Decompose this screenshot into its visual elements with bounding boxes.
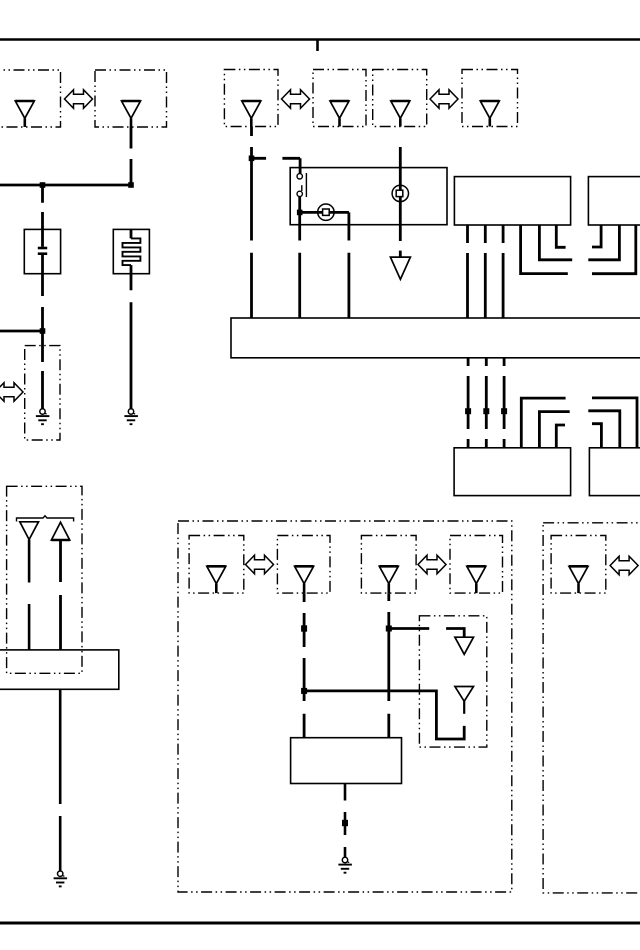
junction node: [386, 626, 392, 632]
outgoing triangle below L2: [390, 257, 410, 279]
junction node: [249, 156, 255, 162]
wire from M1 down to bus: [250, 127, 253, 319]
connector triangle in Bc: [379, 566, 398, 583]
wire to bus: [347, 225, 350, 318]
signal in triangle: [51, 522, 69, 540]
junction node: [301, 688, 307, 694]
hook wire E3 pin4: [521, 398, 565, 448]
hook wire E1 pin4: [521, 225, 568, 274]
out triangle T1: [455, 637, 474, 654]
junction bus box: [231, 318, 640, 358]
connector triangle in M1: [242, 101, 261, 118]
connector triangle in M2: [330, 101, 349, 118]
dashed wire from Bb: [303, 593, 306, 738]
lamp L2: [392, 185, 408, 201]
connector triangle in Be: [569, 566, 588, 583]
control unit box E3: [454, 448, 570, 496]
connector triangle in M3: [391, 101, 410, 118]
stem M4: [488, 118, 491, 126]
branch wire to switch: [252, 158, 301, 173]
ground G2: [124, 409, 137, 424]
antenna unit dash-dot box: [7, 486, 82, 673]
hook wire E4 pin3: [592, 424, 601, 447]
resistor R1 element: [123, 229, 141, 273]
bracket over triangles: [17, 516, 74, 522]
dash-dot box around G1: [25, 346, 60, 440]
switch S1: [297, 173, 306, 197]
stem L2: [130, 118, 133, 127]
hook wire E4 pin1: [592, 398, 637, 447]
connector box L2: [95, 70, 167, 127]
signal out wire: [28, 540, 31, 650]
capacitor C1 box: [24, 229, 60, 273]
connector box Ba: [189, 536, 244, 594]
wire E1 pin1 to bus: [466, 225, 469, 318]
connector triangle in Bd: [467, 566, 486, 583]
harness arrow A1: [65, 90, 93, 109]
wire switch to junction: [298, 197, 301, 215]
wire to ground G1: [41, 331, 44, 409]
junction node: [40, 328, 46, 334]
junction node: [40, 182, 46, 188]
flow node: [465, 408, 471, 414]
connector box Bd: [450, 536, 503, 594]
lamp L1: [318, 204, 334, 220]
connector box M4: [462, 70, 518, 127]
lamp unit box: [290, 168, 447, 225]
wire lamp L2 down: [399, 251, 402, 258]
connector box M2: [313, 70, 366, 127]
wire to ground G4: [344, 784, 347, 858]
stem M1: [250, 118, 253, 126]
control unit box E1: [454, 177, 570, 225]
connector box Bc: [361, 536, 416, 594]
stem Be: [577, 584, 580, 594]
harness arrow A2: [282, 90, 310, 109]
connector box Bb: [277, 536, 330, 594]
top border line: [0, 38, 640, 41]
hook wire E1 pin5: [539, 225, 572, 260]
wire junction to lamp L1: [300, 211, 349, 214]
hook wire E2 pin1: [592, 225, 601, 247]
connector triangle in Ba: [207, 566, 226, 583]
bottom border line: [0, 922, 640, 925]
resistor R1 box: [113, 229, 149, 273]
top border tick: [316, 40, 319, 52]
control unit box E4 (cut at right edge): [589, 448, 640, 496]
ground G1: [36, 409, 50, 424]
stem M3: [399, 118, 402, 126]
control unit box E2 (cut at right edge): [588, 177, 640, 225]
wire switch feed to bus: [298, 215, 301, 318]
hook wire E2 pin3: [592, 225, 636, 274]
hook wire E3 pin5: [539, 412, 569, 448]
flow node: [501, 408, 507, 414]
wire to ground G2: [130, 274, 133, 409]
ground G4: [338, 857, 352, 872]
flow node: [342, 820, 348, 826]
right unit dash-dot box (cut at right edge): [543, 523, 640, 893]
harness arrow A5: [418, 555, 446, 574]
wire bus from left edge: [0, 184, 131, 187]
branch wire to out triangle T1: [389, 629, 464, 638]
hook wire E1 pin6: [556, 225, 565, 247]
stem Bc: [387, 584, 390, 594]
audio unit dash-dot box: [178, 521, 512, 892]
wire from L2 down: [130, 127, 133, 186]
signal out triangle: [20, 522, 39, 540]
wire lamp L1 out: [347, 212, 350, 224]
hook wire E2 pin2: [588, 225, 619, 260]
connector box L1 (dash-dot, cut at left edge): [0, 70, 61, 127]
wire to capacitor: [41, 185, 44, 229]
wire from left edge: [0, 330, 43, 333]
connector box M1: [224, 70, 278, 127]
capacitor C1: [38, 229, 47, 273]
out triangle T2: [455, 687, 474, 702]
connector triangle in L1: [15, 101, 34, 118]
harness arrow A6: [610, 556, 638, 575]
radio unit box: [291, 738, 402, 784]
signal in wire: [59, 540, 62, 650]
stem Bd: [475, 584, 478, 594]
flow node: [301, 625, 307, 631]
inner dash-dot box: [419, 616, 486, 747]
junction node: [128, 182, 134, 188]
harness arrow A4: [246, 555, 274, 574]
harness arrow A3: [430, 90, 458, 109]
hook wire E4 pin2: [588, 411, 620, 447]
out triangle T2 stem: [463, 701, 465, 714]
flow node: [483, 408, 489, 414]
wire E1 pin3 to bus: [502, 225, 505, 318]
connector triangle in Bb: [295, 566, 314, 583]
ground G3: [54, 871, 67, 886]
dashed wire below bus 1: [467, 358, 470, 448]
wire to ground G3: [59, 689, 62, 871]
wire below capacitor: [41, 274, 44, 331]
junction node: [297, 210, 303, 216]
stem Ba: [215, 584, 218, 594]
dashed wire below bus 2: [485, 358, 488, 448]
stem Bb: [303, 584, 306, 594]
connector box M3: [373, 70, 427, 127]
stem M2: [338, 118, 341, 126]
hook wire E3 pin6: [556, 425, 565, 448]
wire from Bc: [387, 593, 390, 738]
branch wire to out triangle T2: [304, 691, 464, 739]
connector triangle in L2: [122, 101, 141, 118]
amplifier unit box (cut at left edge): [0, 650, 119, 689]
harness arrow at left edge: [0, 383, 23, 402]
wire E1 pin2 to bus: [484, 225, 487, 318]
stem L1: [23, 118, 26, 127]
wire from M3 to lamp L2: [399, 147, 402, 241]
connector box Be: [551, 536, 606, 594]
dashed wire below bus 3: [503, 358, 506, 448]
signal in triangle base: [51, 539, 69, 542]
connector triangle in M4: [480, 101, 499, 118]
